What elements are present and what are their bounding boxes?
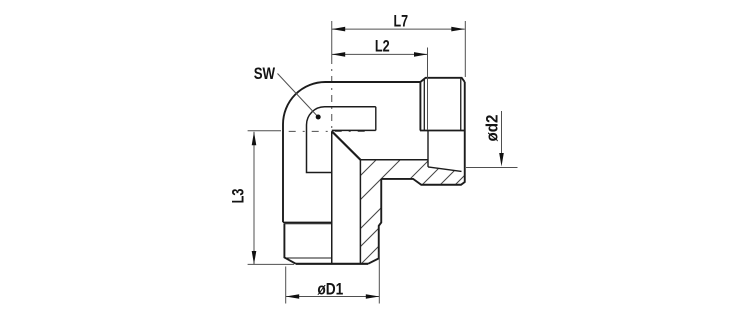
bottom port chamfer circle line: [284, 257, 331, 259]
body inner back-face contour (SW square, seen through cutout): [307, 107, 376, 173]
bottom port: shoulder double line: [283, 221, 332, 223]
svg-text:øD1: øD1: [317, 279, 343, 298]
svg-text:ød2: ød2: [482, 115, 501, 142]
hatching (section cut walls): [256, 120, 520, 280]
svg-text:SW: SW: [254, 64, 276, 83]
body end face edge (vertical, right of inner square): [375, 107, 377, 131]
ød2 arrowhead: [499, 153, 504, 167]
thread root line left: [423, 79, 425, 131]
SW leader line: [278, 74, 319, 118]
bore miter edge (45 deg): [332, 131, 361, 160]
svg-text:L3: L3: [229, 189, 248, 204]
vertical centerline (bottom port axis, also L7/L2 extension): [331, 21, 333, 131]
sectioned lower profile: neck bottom, chamfers, stud bottom, end face: [381, 82, 465, 185]
L7 arrowheads: [332, 27, 465, 32]
dimension od2 (leader with arrow to cone mouth line): [466, 111, 518, 168]
dimension L3: [248, 131, 294, 265]
dimension L2: [332, 48, 428, 131]
L3 arrowheads: [252, 132, 257, 265]
thread root line right: [460, 79, 462, 131]
elbow body outer contour (top edge + corner arc + left edge): [283, 82, 420, 222]
24 deg cone seat line: [428, 167, 462, 172]
right threaded stud (top half view): [420, 78, 464, 131]
bottom port thread left edge + chamfer: [284, 224, 296, 264]
horizontal centerline (right port axis): [289, 130, 372, 132]
svg-text:L7: L7: [394, 12, 409, 31]
dimension oD1: [286, 252, 380, 304]
SW leader dot: [316, 115, 321, 120]
cone end edge inside stud: [427, 131, 429, 167]
bottom-port bore right wall line: [359, 160, 361, 264]
bottom port end face edge: [296, 263, 368, 265]
svg-text:L2: L2: [375, 37, 390, 56]
L2 arrowheads: [332, 52, 428, 57]
body outer right edge below neck (sectioned side): [368, 179, 381, 264]
cut edge along right-port axis (body back half): [332, 129, 376, 131]
cut edge along bottom-port axis (vertical): [331, 131, 333, 264]
dimension L7: [332, 21, 466, 77]
stud cut edge along axis: [420, 130, 465, 132]
right-port bore lower wall line: [360, 159, 428, 161]
øD1 arrowheads: [286, 294, 380, 299]
